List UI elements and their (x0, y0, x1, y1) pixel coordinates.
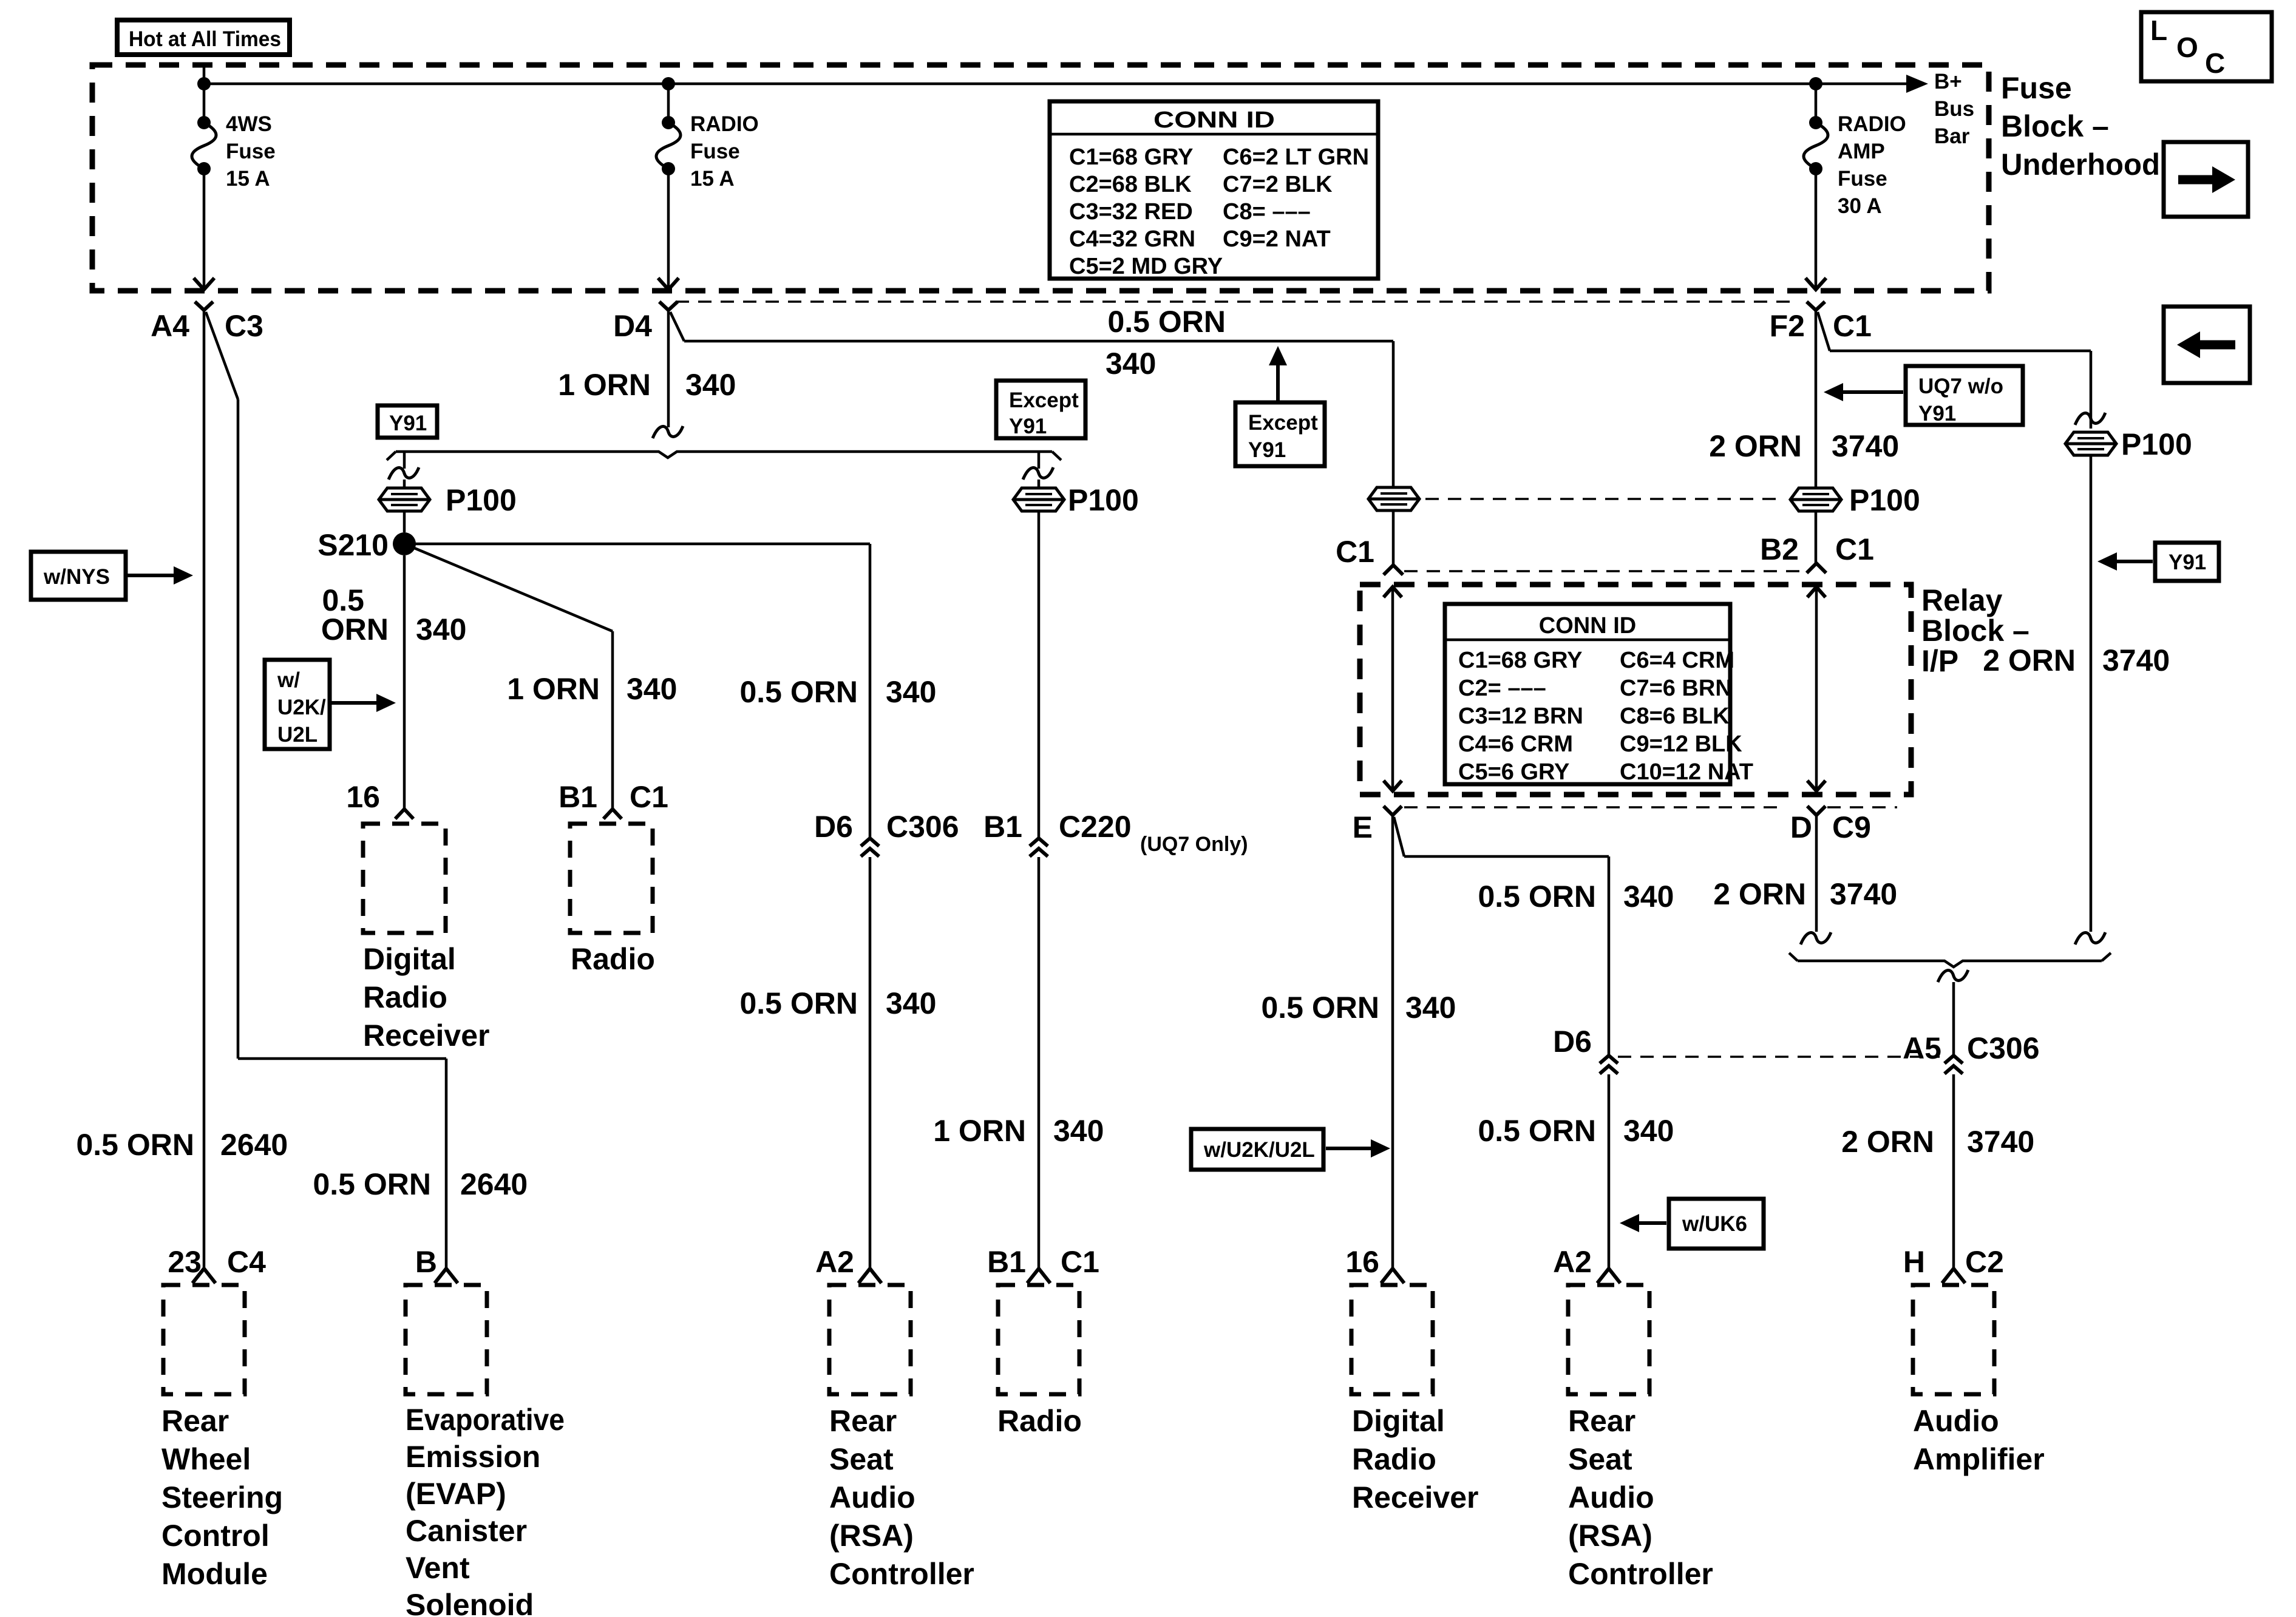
svg-text:I/P: I/P (1921, 644, 1958, 678)
svg-text:(RSA): (RSA) (829, 1519, 914, 1553)
svg-text:P100: P100 (1849, 483, 1920, 517)
svg-text:P100: P100 (2121, 427, 2192, 461)
svg-text:C5=2 MD GRY: C5=2 MD GRY (1069, 254, 1223, 279)
svg-text:2 ORN: 2 ORN (1841, 1125, 1934, 1159)
svg-text:2 ORN: 2 ORN (1713, 877, 1806, 911)
svg-text:Solenoid: Solenoid (406, 1588, 534, 1617)
svg-text:Fuse: Fuse (2001, 71, 2072, 105)
svg-text:C3=12 BRN: C3=12 BRN (1458, 703, 1583, 729)
svg-text:H: H (1903, 1245, 1925, 1279)
svg-text:4WS: 4WS (226, 112, 272, 136)
svg-text:2 ORN: 2 ORN (1709, 429, 1802, 463)
svg-text:Y91: Y91 (1918, 402, 1956, 425)
svg-text:340: 340 (685, 368, 736, 402)
svg-text:C7=6 BRN: C7=6 BRN (1620, 676, 1732, 701)
svg-text:C8=6 BLK: C8=6 BLK (1620, 703, 1730, 729)
svg-text:340: 340 (416, 612, 466, 646)
svg-text:16: 16 (346, 780, 380, 814)
svg-text:B: B (415, 1245, 437, 1279)
svg-text:RADIO: RADIO (690, 112, 759, 136)
svg-text:C220: C220 (1059, 810, 1132, 844)
svg-text:O: O (2176, 32, 2198, 63)
svg-text:D: D (1790, 810, 1812, 844)
svg-text:340: 340 (886, 675, 936, 709)
svg-text:P100: P100 (1068, 483, 1139, 517)
svg-text:0.5 ORN: 0.5 ORN (1478, 880, 1596, 914)
svg-text:B+: B+ (1934, 70, 1962, 93)
svg-text:0.5 ORN: 0.5 ORN (1261, 991, 1379, 1025)
svg-text:Radio: Radio (997, 1404, 1082, 1438)
svg-text:B1: B1 (983, 810, 1022, 844)
svg-text:Bar: Bar (1934, 124, 1970, 148)
svg-text:C1: C1 (1835, 532, 1874, 566)
svg-text:C4: C4 (227, 1245, 266, 1279)
svg-text:Radio: Radio (363, 980, 447, 1014)
svg-text:340: 340 (1405, 991, 1456, 1025)
svg-text:Rear: Rear (161, 1404, 229, 1438)
svg-text:D6: D6 (1553, 1025, 1592, 1059)
svg-text:S210: S210 (318, 528, 389, 562)
svg-text:C5=6 GRY: C5=6 GRY (1458, 759, 1569, 785)
svg-text:(UQ7 Only): (UQ7 Only) (1140, 833, 1248, 856)
svg-text:Y91: Y91 (389, 412, 427, 435)
svg-text:Y91: Y91 (1009, 415, 1047, 438)
svg-text:C8= –––: C8= ––– (1223, 199, 1311, 225)
svg-text:Y91: Y91 (2169, 551, 2206, 574)
svg-text:(RSA): (RSA) (1568, 1519, 1652, 1553)
svg-text:C: C (2205, 47, 2225, 79)
svg-text:CONN ID: CONN ID (1153, 107, 1275, 133)
svg-text:Fuse: Fuse (690, 140, 740, 163)
svg-text:RADIO: RADIO (1838, 112, 1906, 136)
svg-text:1 ORN: 1 ORN (558, 368, 651, 402)
svg-text:A5: A5 (1903, 1031, 1941, 1065)
svg-text:Hot at All Times: Hot at All Times (129, 27, 281, 51)
svg-text:F2: F2 (1770, 309, 1805, 343)
svg-text:C6=4 CRM: C6=4 CRM (1620, 648, 1734, 673)
svg-text:Relay: Relay (1921, 583, 2003, 617)
svg-text:Digital: Digital (1352, 1404, 1445, 1438)
svg-text:Wheel: Wheel (161, 1442, 251, 1476)
svg-text:Block –: Block – (2001, 109, 2109, 143)
svg-text:C10=12 NAT: C10=12 NAT (1620, 759, 1753, 785)
svg-text:340: 340 (886, 986, 936, 1020)
svg-text:C4=6 CRM: C4=6 CRM (1458, 731, 1573, 757)
svg-text:Fuse: Fuse (1838, 167, 1887, 191)
svg-text:Y91: Y91 (1248, 438, 1286, 462)
svg-text:Controller: Controller (829, 1557, 974, 1591)
svg-text:U2L: U2L (277, 723, 318, 747)
svg-text:2 ORN: 2 ORN (1983, 643, 2076, 677)
svg-text:L: L (2150, 15, 2167, 46)
svg-text:Evaporative: Evaporative (406, 1403, 565, 1437)
svg-text:C2= –––: C2= ––– (1458, 676, 1546, 701)
svg-text:C1=68 GRY: C1=68 GRY (1458, 648, 1583, 673)
svg-text:0.5 ORN: 0.5 ORN (739, 986, 858, 1020)
svg-text:C1: C1 (630, 780, 668, 814)
svg-text:ORN: ORN (321, 612, 389, 646)
svg-text:P100: P100 (446, 483, 517, 517)
svg-text:340: 340 (627, 672, 677, 706)
svg-text:C9: C9 (1832, 810, 1871, 844)
svg-text:Digital: Digital (363, 942, 456, 976)
svg-text:Canister: Canister (406, 1514, 527, 1548)
svg-text:340: 340 (1623, 880, 1674, 914)
svg-text:1 ORN: 1 ORN (933, 1114, 1026, 1148)
svg-text:A2: A2 (815, 1245, 854, 1279)
svg-text:C1: C1 (1061, 1245, 1099, 1279)
svg-text:C3: C3 (225, 309, 263, 343)
svg-text:C1=68 GRY: C1=68 GRY (1069, 144, 1194, 170)
svg-text:16: 16 (1345, 1245, 1379, 1279)
svg-text:C9=2 NAT: C9=2 NAT (1223, 226, 1331, 252)
svg-text:C2: C2 (1965, 1245, 2004, 1279)
svg-text:Module: Module (161, 1557, 268, 1591)
svg-text:0.5 ORN: 0.5 ORN (76, 1128, 194, 1162)
svg-text:2640: 2640 (220, 1128, 288, 1162)
svg-text:0.5 ORN: 0.5 ORN (1478, 1114, 1596, 1148)
svg-text:Control: Control (161, 1519, 270, 1553)
svg-text:Rear: Rear (829, 1404, 897, 1438)
svg-text:0.5 ORN: 0.5 ORN (1107, 305, 1226, 339)
svg-text:Receiver: Receiver (363, 1019, 490, 1053)
svg-text:Except: Except (1248, 411, 1318, 435)
svg-text:23: 23 (168, 1245, 202, 1279)
svg-text:C6=2 LT GRN: C6=2 LT GRN (1223, 144, 1369, 170)
svg-text:w/NYS: w/NYS (43, 565, 110, 589)
svg-text:(EVAP): (EVAP) (406, 1477, 506, 1511)
svg-text:Bus: Bus (1934, 97, 1974, 121)
svg-text:3740: 3740 (1830, 877, 1897, 911)
svg-text:0.5 ORN: 0.5 ORN (313, 1167, 431, 1201)
svg-text:C9=12 BLK: C9=12 BLK (1620, 731, 1742, 757)
svg-text:w/UK6: w/UK6 (1682, 1212, 1747, 1236)
svg-text:C3=32 RED: C3=32 RED (1069, 199, 1193, 225)
svg-text:Block –: Block – (1921, 614, 2029, 648)
svg-text:C306: C306 (886, 810, 959, 844)
svg-text:U2K/: U2K/ (277, 696, 326, 719)
svg-text:340: 340 (1053, 1114, 1104, 1148)
svg-text:C4=32 GRN: C4=32 GRN (1069, 226, 1195, 252)
svg-text:Controller: Controller (1568, 1557, 1713, 1591)
svg-text:CONN ID: CONN ID (1539, 613, 1636, 639)
svg-text:340: 340 (1623, 1114, 1674, 1148)
svg-text:Audio: Audio (829, 1480, 915, 1514)
svg-text:C7=2 BLK: C7=2 BLK (1223, 172, 1333, 197)
svg-text:B1: B1 (559, 780, 597, 814)
svg-text:15 A: 15 A (690, 167, 735, 191)
svg-text:Emission: Emission (406, 1440, 540, 1474)
svg-text:Vent: Vent (406, 1551, 470, 1585)
svg-text:3740: 3740 (1832, 429, 1899, 463)
svg-text:3740: 3740 (1967, 1125, 2034, 1159)
svg-text:0.5 ORN: 0.5 ORN (739, 675, 858, 709)
svg-text:C1: C1 (1833, 309, 1872, 343)
svg-text:B1: B1 (987, 1245, 1026, 1279)
svg-text:30 A: 30 A (1838, 194, 1882, 218)
svg-text:A4: A4 (151, 309, 189, 343)
svg-text:Seat: Seat (1568, 1442, 1632, 1476)
svg-text:Underhood: Underhood (2001, 147, 2160, 181)
svg-text:Seat: Seat (829, 1442, 894, 1476)
svg-text:Fuse: Fuse (226, 140, 276, 163)
svg-text:C2=68 BLK: C2=68 BLK (1069, 172, 1192, 197)
svg-text:w/: w/ (277, 668, 300, 692)
svg-text:E: E (1353, 810, 1373, 844)
svg-text:w/U2K/U2L: w/U2K/U2L (1203, 1138, 1315, 1162)
svg-text:D6: D6 (814, 810, 853, 844)
svg-text:2640: 2640 (460, 1167, 528, 1201)
svg-text:Audio: Audio (1568, 1480, 1654, 1514)
svg-text:Except: Except (1009, 388, 1079, 412)
svg-text:C1: C1 (1336, 535, 1374, 569)
svg-text:Amplifier: Amplifier (1913, 1442, 2045, 1476)
svg-text:A2: A2 (1553, 1245, 1592, 1279)
svg-text:Audio: Audio (1913, 1404, 1999, 1438)
svg-text:Rear: Rear (1568, 1404, 1635, 1438)
svg-text:15 A: 15 A (226, 167, 270, 191)
svg-text:Radio: Radio (1352, 1442, 1436, 1476)
svg-text:Receiver: Receiver (1352, 1480, 1479, 1514)
svg-text:C306: C306 (1967, 1031, 2040, 1065)
svg-text:3740: 3740 (2102, 643, 2170, 677)
svg-text:1 ORN: 1 ORN (507, 672, 600, 706)
svg-text:Radio: Radio (571, 942, 655, 976)
svg-text:UQ7 w/o: UQ7 w/o (1918, 375, 2003, 398)
svg-text:D4: D4 (613, 309, 652, 343)
svg-text:AMP: AMP (1838, 140, 1885, 163)
svg-text:340: 340 (1106, 347, 1156, 381)
svg-text:B2: B2 (1760, 532, 1799, 566)
svg-text:Steering: Steering (161, 1480, 283, 1514)
